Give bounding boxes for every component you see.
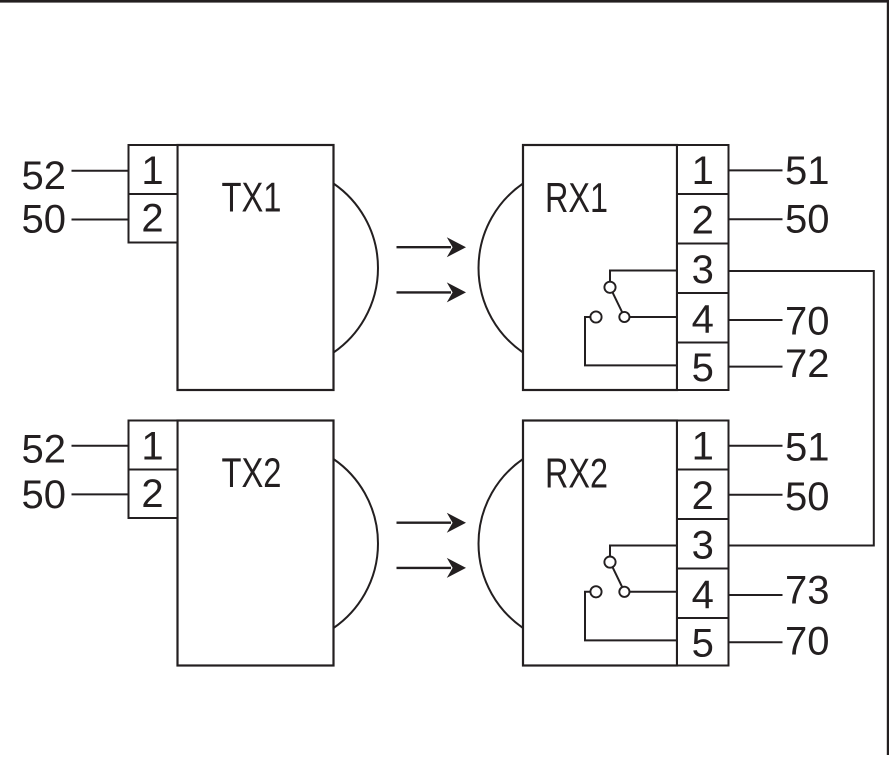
RX2 relay wire pin5 (585, 592, 677, 641)
TX2 lens (334, 459, 378, 628)
right frame line (887, 0, 889, 755)
svg-text:3: 3 (692, 248, 714, 292)
svg-text:3: 3 (692, 523, 714, 567)
TX1 terminal block (129, 145, 178, 243)
svg-text:2: 2 (141, 472, 163, 516)
svg-text:50: 50 (785, 475, 830, 519)
svg-text:52: 52 (22, 428, 67, 472)
wire RX1 pin3 to RX2 pin3 link (729, 271, 874, 546)
transmitter TX2 body (178, 421, 334, 666)
RX2 relay contact NO (pin4) (619, 587, 629, 597)
RX1 relay wire pin3 (610, 271, 677, 282)
svg-text:TX2: TX2 (222, 449, 282, 496)
receiver RX2 body (523, 421, 677, 666)
svg-text:TX1: TX1 (222, 174, 282, 221)
wire RX1 pin2 (729, 218, 783, 220)
svg-text:52: 52 (22, 154, 67, 198)
wire RX2 pin2 (729, 494, 783, 496)
svg-text:4: 4 (692, 297, 714, 341)
RX1 relay wire pin5 (585, 317, 677, 365)
TX1 lens (334, 184, 378, 353)
wire TX2 pin2 (72, 493, 129, 495)
RX2 relay wire pin3 (610, 546, 677, 557)
wire TX1 pin2 (72, 219, 129, 221)
svg-text:50: 50 (785, 198, 830, 242)
svg-text:2: 2 (692, 198, 714, 242)
top frame bar (0, 0, 889, 3)
svg-text:51: 51 (785, 426, 830, 470)
svg-text:50: 50 (22, 198, 67, 242)
svg-text:2: 2 (692, 474, 714, 518)
wire RX2 pin5 (729, 641, 783, 643)
RX1 relay wire pin4 (630, 316, 678, 318)
RX2 lens (479, 459, 523, 628)
transmitter TX1 body (178, 145, 334, 390)
svg-text:70: 70 (785, 620, 830, 664)
wire TX1 pin1 (72, 170, 129, 172)
wire RX2 pin4 (729, 594, 783, 596)
RX2 terminal block (677, 421, 729, 666)
svg-text:5: 5 (692, 621, 714, 665)
wire RX1 pin4 (729, 319, 783, 321)
svg-text:RX2: RX2 (545, 450, 608, 497)
svg-text:5: 5 (692, 346, 714, 390)
svg-text:1: 1 (692, 425, 714, 469)
RX2 relay wire pin4 (630, 591, 678, 593)
wire RX1 pin1 (729, 169, 783, 171)
receiver RX1 body (523, 145, 677, 390)
RX1 relay contact common (604, 282, 615, 293)
svg-text:73: 73 (785, 569, 830, 613)
RX1 relay contact NC (pin5) (590, 311, 601, 322)
RX2 relay arm (613, 567, 623, 587)
svg-text:1: 1 (692, 149, 714, 193)
svg-text:51: 51 (785, 149, 830, 193)
beam arrow TX1-RX1 lower (397, 282, 467, 302)
svg-text:1: 1 (141, 425, 163, 469)
wire TX2 pin1 (72, 445, 129, 447)
beam arrow TX2-RX2 upper (397, 513, 467, 533)
svg-text:4: 4 (692, 573, 714, 617)
RX1 terminal block (677, 145, 729, 390)
RX1 relay arm (613, 292, 623, 312)
beam arrow TX2-RX2 lower (397, 558, 467, 578)
svg-text:70: 70 (785, 300, 830, 344)
svg-text:RX1: RX1 (545, 174, 608, 221)
wire RX2 pin1 (729, 445, 783, 447)
svg-text:1: 1 (141, 149, 163, 193)
RX1 relay contact NO (pin4) (619, 312, 629, 322)
TX2 terminal block (129, 421, 178, 519)
svg-text:72: 72 (785, 342, 830, 386)
RX2 relay contact common (604, 557, 615, 568)
beam arrow TX1-RX1 upper (397, 237, 467, 257)
wire RX1 pin5 (729, 366, 783, 368)
RX2 relay contact NC (pin5) (590, 586, 601, 597)
svg-text:50: 50 (22, 473, 67, 517)
RX1 lens (479, 184, 523, 353)
svg-text:2: 2 (141, 196, 163, 240)
